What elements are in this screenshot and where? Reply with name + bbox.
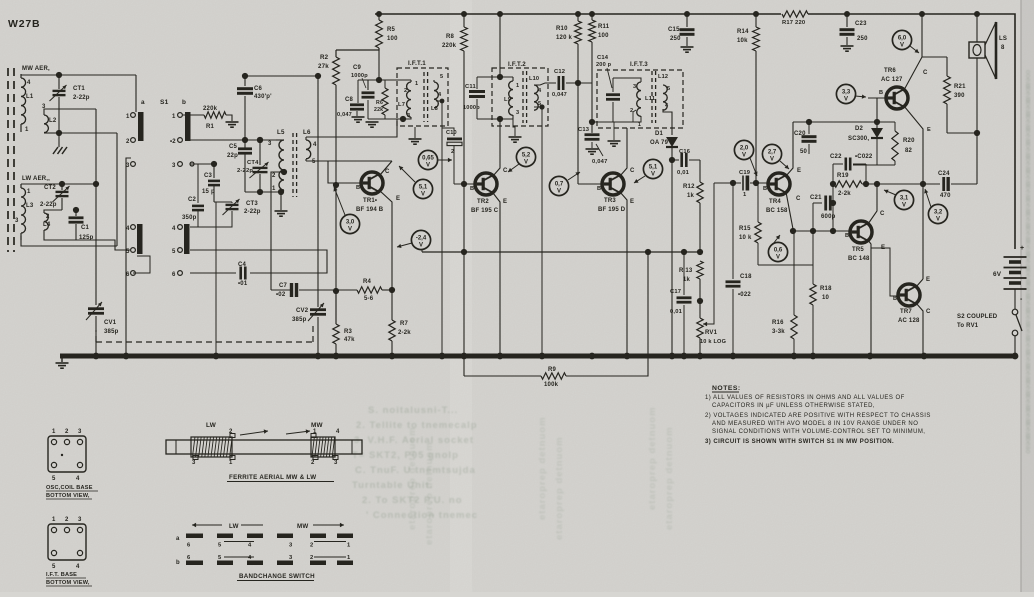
potentiometer RV1 10k LOG: [697, 318, 703, 338]
svg-text:4: 4: [248, 543, 252, 549]
svg-text:1) ALL VALUES OF RESISTORS: 1) ALL VALUES OF RESISTORS IN OHMS AND A…: [705, 395, 905, 401]
coil L6: [305, 137, 307, 140]
wire TR1 emitter: [380, 191, 392, 320]
svg-text:3: 3: [15, 218, 19, 224]
bus junction: [539, 353, 546, 360]
transistor TR4 BC158: [768, 173, 790, 195]
svg-text:B: B: [763, 186, 767, 192]
voltage 3,2V: [928, 204, 947, 223]
capacitor C23 250: [846, 14, 848, 27]
svg-text:3: 3: [334, 460, 338, 466]
wire C6 top to L6: [245, 75, 318, 77]
svg-text:R14: R14: [737, 29, 749, 35]
svg-text:1: 1: [25, 127, 29, 133]
svg-text:47k: 47k: [344, 337, 355, 343]
svg-text:C: C: [503, 168, 508, 174]
capacitor C2 350p: [197, 164, 199, 203]
resistor R20 82: [894, 122, 896, 131]
svg-text:3: 3: [289, 543, 293, 549]
svg-text:R7: R7: [400, 321, 409, 327]
bus junction: [589, 353, 596, 360]
voltage 0,6V: [768, 242, 787, 261]
svg-text:4: 4: [248, 555, 252, 561]
svg-text:a: a: [141, 99, 145, 106]
IFT3 dashed box: [597, 70, 683, 128]
wire TR3 collector: [620, 128, 627, 176]
switch S1 section b2: [184, 224, 190, 254]
svg-text:R20: R20: [903, 138, 915, 144]
svg-text:CV2: CV2: [296, 308, 309, 314]
svg-text:TR7: TR7: [900, 309, 912, 315]
svg-text:5: 5: [218, 555, 222, 561]
svg-text:C1: C1: [81, 225, 90, 231]
ground IFT1: [414, 127, 416, 138]
wire R9 AGC to base: [463, 184, 465, 376]
svg-text:5: 5: [52, 476, 56, 482]
svg-text:S2 COUPLED: S2 COUPLED: [957, 314, 998, 320]
ground bus wire: [60, 354, 1017, 359]
svg-text:3: 3: [78, 429, 82, 435]
svg-text:C: C: [385, 169, 390, 175]
svg-text:-2,4: -2,4: [416, 236, 427, 242]
voltage 3,1V: [894, 190, 913, 209]
svg-text:L8: L8: [431, 106, 438, 112]
svg-text:V: V: [770, 157, 774, 163]
svg-text:3: 3: [172, 163, 176, 169]
svg-text:AC 127: AC 127: [881, 77, 903, 83]
wire L7 bottom to ground line: [368, 117, 411, 119]
svg-text:2-22p: 2-22p: [40, 202, 57, 208]
svg-text:5,1: 5,1: [649, 165, 658, 171]
svg-text:CV1: CV1: [104, 320, 117, 326]
switch S1 section a2: [137, 224, 143, 254]
svg-text:2: 2: [126, 139, 130, 145]
wire L6 pin5 to TR1 base: [306, 160, 392, 162]
coil L1: [20, 74, 22, 78]
winding pin tabs: [193, 456, 198, 460]
wire D2 bottom: [853, 164, 895, 166]
svg-text:5,1: 5,1: [419, 185, 428, 191]
svg-text:C21: C21: [810, 195, 822, 201]
bus junction: [669, 353, 676, 360]
trimmer CT1 2-22p: [58, 75, 60, 89]
trimmer CT2 2-22p: [61, 184, 63, 190]
svg-text:•022: •022: [738, 292, 751, 298]
resistor R5 100: [378, 14, 380, 20]
svg-text:350p: 350p: [182, 215, 197, 221]
svg-text:b: b: [182, 99, 186, 106]
svg-text:V: V: [900, 43, 904, 49]
ferrite core IFT1: [423, 72, 425, 122]
wire TR5 collector: [868, 184, 877, 224]
svg-text:2-22p: 2-22p: [244, 209, 261, 215]
wire TR4 collector: [786, 192, 793, 231]
coil L4: [44, 210, 62, 213]
svg-text:LW: LW: [206, 422, 217, 429]
svg-text:2: 2: [65, 517, 69, 523]
svg-text:R9: R9: [548, 367, 557, 373]
wire TR4 collector to TR5 base: [793, 230, 849, 232]
svg-text:C: C: [880, 211, 885, 217]
transistor TR5 BC148: [850, 221, 872, 243]
svg-text:2: 2: [451, 149, 454, 155]
resistor R13 1k: [697, 261, 703, 279]
svg-text:V: V: [651, 172, 655, 178]
svg-text:C11: C11: [465, 84, 476, 90]
svg-text:V: V: [742, 153, 746, 159]
svg-text:220k: 220k: [203, 106, 218, 112]
wire L4 bottom: [44, 230, 76, 240]
bus junction: [867, 353, 874, 360]
bus junction: [497, 353, 504, 360]
trimmer CT3 2-22p: [214, 201, 232, 203]
bus junction: [730, 353, 737, 360]
svg-text:V: V: [419, 243, 423, 249]
svg-text:3: 3: [289, 555, 293, 561]
svg-text:200 p: 200 p: [596, 62, 612, 68]
wire IFT1 primary top: [358, 79, 411, 81]
bus junction: [439, 353, 446, 360]
svg-text:15 p: 15 p: [202, 189, 215, 195]
wire TR7 collector: [916, 303, 923, 356]
wire speaker return: [976, 58, 978, 133]
capacitor C22 .0022: [833, 163, 843, 165]
svg-text:E: E: [926, 277, 930, 283]
svg-text:1: 1: [52, 429, 56, 435]
svg-text:C16: C16: [679, 149, 691, 155]
svg-text:0,047: 0,047: [552, 92, 567, 98]
svg-text:B: B: [597, 186, 601, 192]
trimmer CT4 2-22p: [259, 140, 261, 165]
bus junction: [697, 353, 704, 360]
capacitor C21 600p: [813, 202, 822, 204]
svg-text:MW AER,: MW AER,: [22, 66, 50, 72]
coil L12: [662, 84, 664, 86]
svg-text:•C022: •C022: [855, 154, 873, 160]
supply rail wire right: [808, 14, 1015, 249]
wire LW top: [21, 183, 95, 185]
svg-text:82: 82: [905, 148, 913, 154]
svg-text:2-2k: 2-2k: [838, 191, 851, 197]
svg-text:R11: R11: [598, 24, 610, 30]
resistor R16 3-3k: [793, 231, 795, 315]
svg-text:1000p: 1000p: [463, 105, 480, 111]
svg-text:CT1: CT1: [73, 86, 85, 92]
svg-text:1000p: 1000p: [351, 73, 368, 79]
svg-text:50: 50: [800, 149, 808, 155]
wire C2 bottom to switch 4b: [190, 226, 198, 228]
svg-text:120 k: 120 k: [556, 35, 572, 41]
ferrite rod dashed: [7, 68, 9, 252]
svg-text:C20: C20: [794, 131, 806, 137]
svg-text:2-22p: 2-22p: [73, 95, 90, 101]
voltage 5,2V: [516, 147, 535, 166]
rail junction: [376, 11, 382, 17]
resistor R8 220k: [463, 14, 465, 27]
svg-text:V: V: [557, 189, 561, 195]
wire TR3 emitter: [620, 192, 627, 356]
voltage 5,1V TR1: [413, 179, 432, 198]
transistor TR1 BF194B: [361, 172, 383, 194]
voltage -2,4V: [411, 230, 430, 249]
svg-text:C13: C13: [578, 127, 590, 133]
rail junction: [684, 11, 690, 17]
svg-text:C2: C2: [188, 197, 197, 203]
svg-text:LW AER,,: LW AER,,: [22, 176, 50, 182]
wire TR2 emitter: [493, 193, 500, 356]
voltage 6,0V: [892, 30, 911, 49]
svg-text:I.F.T.3: I.F.T.3: [630, 61, 648, 68]
svg-text:R4: R4: [363, 279, 372, 285]
svg-text:1: 1: [27, 189, 31, 195]
svg-text:22p: 22p: [227, 153, 238, 159]
resistor R2 27k: [336, 48, 379, 50]
svg-text:V: V: [776, 255, 780, 261]
resistor R12 1k: [699, 160, 701, 182]
svg-text:C15: C15: [668, 27, 680, 33]
svg-text:6V: 6V: [993, 271, 1002, 278]
svg-text:C: C: [926, 309, 931, 315]
svg-text:RV1: RV1: [705, 330, 718, 336]
svg-text:2: 2: [272, 173, 276, 179]
svg-text:R10: R10: [556, 26, 568, 32]
svg-text:•01: •01: [238, 281, 248, 287]
svg-text:BC 158: BC 158: [766, 208, 788, 214]
paper background shading: [450, 0, 472, 592]
wire L2 tap: [47, 108, 96, 110]
svg-text:10: 10: [822, 295, 830, 301]
svg-text:L6: L6: [303, 129, 311, 136]
svg-text:27k: 27k: [318, 63, 329, 70]
svg-text:MW: MW: [311, 422, 324, 429]
svg-text:E: E: [797, 168, 801, 174]
svg-text:CT2: CT2: [44, 185, 56, 191]
wire D1 cathode: [671, 148, 673, 160]
svg-text:470: 470: [940, 193, 951, 199]
svg-text:390: 390: [954, 93, 965, 99]
capacitor C8 0,047: [357, 80, 359, 103]
svg-text:V: V: [426, 163, 430, 169]
winding sense arrows: [240, 431, 268, 435]
capacitor C7 .02: [290, 283, 293, 297]
variable capacitor CV2 385p: [317, 140, 319, 307]
svg-text:V: V: [902, 203, 906, 209]
bus junction: [461, 353, 468, 360]
svg-text:2: 2: [65, 429, 69, 435]
svg-text:3: 3: [268, 141, 272, 147]
resistor R3 47k: [335, 291, 337, 324]
svg-text:•02: •02: [276, 292, 286, 298]
svg-text:To RV1: To RV1: [957, 323, 979, 329]
svg-text:a: a: [176, 536, 180, 542]
svg-text:3: 3: [407, 113, 410, 119]
svg-text:V: V: [348, 227, 352, 233]
svg-text:2: 2: [404, 88, 407, 94]
svg-text:1: 1: [347, 543, 351, 549]
wire switch 3a down: [126, 158, 131, 356]
svg-text:L10: L10: [529, 76, 539, 82]
svg-text:R8: R8: [446, 34, 455, 40]
svg-text:3-3k: 3-3k: [772, 329, 785, 335]
svg-text:L3: L3: [26, 203, 34, 209]
capacitor C3 15p: [213, 164, 215, 178]
capacitor C18 022: [732, 183, 734, 279]
capacitor C15 250: [686, 14, 688, 27]
LW winding: [191, 437, 232, 457]
ground IFT2: [513, 119, 515, 136]
coil L3: [20, 184, 22, 188]
bus junction: [389, 353, 396, 360]
transistor TR6 AC127: [886, 87, 908, 109]
svg-text:R3: R3: [344, 329, 353, 335]
bus junction: [315, 353, 322, 360]
svg-text:C5: C5: [229, 144, 238, 150]
svg-text:385p: 385p: [104, 329, 119, 335]
svg-text:D2: D2: [855, 126, 864, 132]
svg-text:3,1: 3,1: [900, 196, 909, 202]
wire TR5 emitter: [868, 240, 871, 356]
resistor R21 390: [922, 56, 947, 58]
node vertical TR5 base: [832, 164, 834, 231]
svg-text:3,0: 3,0: [346, 220, 355, 226]
svg-text:3,3: 3,3: [842, 90, 851, 96]
svg-text:4: 4: [313, 142, 317, 148]
svg-text:2: 2: [310, 543, 313, 549]
switch S1 section b1: [185, 112, 191, 141]
svg-text:V: V: [936, 217, 940, 223]
svg-text:R2: R2: [320, 54, 329, 61]
svg-text:100k: 100k: [544, 382, 559, 388]
resistor R11 100: [591, 14, 593, 20]
svg-text:1: 1: [172, 114, 176, 120]
svg-text:2) VOLTAGES INDICATED ARE P: 2) VOLTAGES INDICATED ARE POSITIVE WITH …: [705, 413, 931, 419]
rail junction: [844, 11, 850, 17]
svg-text:5: 5: [52, 564, 56, 570]
AGC wire: [422, 251, 700, 253]
svg-text:2: 2: [46, 214, 50, 220]
svg-text:C18: C18: [740, 274, 752, 280]
svg-text:R21: R21: [954, 84, 966, 90]
svg-text:1: 1: [52, 517, 56, 523]
svg-text:0,7: 0,7: [555, 182, 564, 188]
svg-text:E: E: [630, 199, 634, 205]
svg-text:S1: S1: [160, 99, 169, 106]
svg-text:5-6: 5-6: [364, 296, 374, 302]
wire MW top: [21, 74, 136, 76]
rail junction: [919, 11, 925, 17]
capacitor C20 50: [808, 122, 810, 134]
svg-text:C23: C23: [855, 21, 867, 27]
svg-text:+: +: [1020, 245, 1024, 252]
svg-text:C12: C12: [554, 69, 565, 75]
svg-text:0,01: 0,01: [670, 309, 683, 315]
svg-text:CAPACITORS IN µF UNLESS OT: CAPACITORS IN µF UNLESS OTHERWISE STATED…: [712, 403, 875, 409]
diode D1 OA79: [666, 137, 678, 147]
svg-text:C22: C22: [830, 154, 842, 160]
ferrite core IFT3: [651, 71, 653, 123]
svg-text:R5: R5: [387, 27, 396, 33]
svg-text:100: 100: [387, 36, 398, 42]
svg-text:2-2k: 2-2k: [398, 330, 411, 336]
bus junction: [1012, 353, 1019, 360]
svg-text:•2: •2: [170, 139, 176, 145]
ferrite core IFT osc: [292, 133, 294, 197]
wire TR6 base: [868, 97, 886, 99]
svg-text:BOTTOM VIEW,: BOTTOM VIEW,: [46, 493, 90, 499]
switch S2: [1014, 289, 1016, 309]
svg-text:BF 195 D: BF 195 D: [598, 207, 626, 213]
MW winding: [311, 437, 335, 457]
voltage 0,7V: [549, 176, 568, 195]
capacitor C12 0,047: [534, 83, 556, 85]
svg-text:C24: C24: [938, 171, 950, 177]
ground aerial: [58, 133, 60, 147]
svg-text:TR1•: TR1•: [363, 198, 377, 204]
svg-text:L2: L2: [49, 118, 57, 124]
svg-text:4: 4: [336, 429, 340, 435]
svg-text:0,65: 0,65: [422, 156, 434, 162]
svg-text:B: B: [470, 186, 474, 192]
svg-text:I.F.T.2: I.F.T.2: [508, 61, 526, 68]
switch S1 section a1: [138, 112, 144, 141]
wire TR7 base drive: [871, 248, 898, 296]
svg-text:2-22p: 2-22p: [237, 168, 253, 174]
svg-text:R16: R16: [772, 320, 784, 326]
svg-text:5: 5: [172, 249, 176, 255]
svg-text:3) CIRCUIT IS SHOWN WITH S: 3) CIRCUIT IS SHOWN WITH SWITCH S1 IN MW…: [705, 439, 894, 445]
svg-text:C7: C7: [279, 283, 288, 289]
capacitor C10: [442, 128, 454, 136]
svg-text:B: B: [845, 233, 849, 239]
wire TR4 emitter rail: [793, 121, 895, 123]
capacitor C24 470: [923, 183, 940, 185]
svg-text:4: 4: [172, 226, 176, 232]
svg-text:R6: R6: [376, 100, 383, 106]
svg-text:FERRITE AERIAL MW & LW: FERRITE AERIAL MW & LW: [229, 474, 316, 481]
wire L12 to D1: [663, 109, 672, 135]
svg-text:OSC,COIL BASE: OSC,COIL BASE: [46, 485, 93, 491]
wire switch 3b right: [190, 163, 214, 165]
wire IFT2 secondary return: [534, 107, 542, 356]
gang dashed link: [96, 341, 313, 343]
svg-text:1: 1: [743, 192, 747, 198]
capacitor C1 125p: [75, 210, 77, 216]
svg-text:R12: R12: [683, 184, 695, 190]
resistor R6 22k: [384, 80, 386, 88]
capacitor C16 0,01: [672, 159, 679, 161]
bus junction: [681, 353, 688, 360]
svg-text:TR5: TR5: [852, 247, 864, 253]
svg-text:SC300,: SC300,: [848, 136, 869, 142]
svg-text:385p: 385p: [292, 317, 307, 323]
svg-text:4: 4: [76, 564, 80, 570]
voltage 2,0V: [734, 140, 753, 159]
oscillator tank rail: [245, 191, 281, 193]
IFT1 dashed box: [397, 68, 448, 126]
svg-text:BF 194 B: BF 194 B: [356, 207, 384, 213]
svg-text:100: 100: [598, 33, 609, 39]
svg-text:5: 5: [218, 543, 222, 549]
ferrite aerial rod: [166, 440, 362, 454]
coil L9: [512, 77, 514, 81]
svg-text:C17: C17: [670, 289, 681, 295]
bus junction: [791, 353, 798, 360]
svg-text:5: 5: [667, 86, 670, 92]
svg-text:1: 1: [272, 186, 276, 192]
speaker LS: [976, 14, 978, 42]
svg-text:8: 8: [1001, 45, 1005, 51]
svg-text:6: 6: [126, 272, 130, 278]
